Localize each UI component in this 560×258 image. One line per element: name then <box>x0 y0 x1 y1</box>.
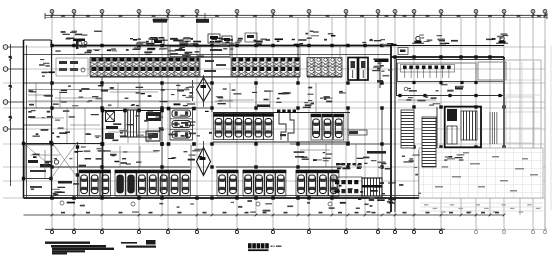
column grid vertical lines <box>52 12 545 228</box>
misc partition lines <box>28 45 436 178</box>
right edge dimension line <box>545 40 551 230</box>
structural column blobs <box>22 44 506 200</box>
bottom dimension line under building <box>24 212 506 217</box>
annotation text clusters (top margin) <box>61 31 509 46</box>
drawing title <box>248 243 282 251</box>
scattered marks lower margin <box>67 200 371 213</box>
light annex structure right <box>419 60 543 198</box>
left dimension chain and bubbles <box>3 44 23 186</box>
lift shaft block <box>348 58 389 89</box>
legend note bars bottom left <box>45 240 156 255</box>
light dimension annotations bottom right <box>420 203 543 213</box>
corridor lines left band <box>28 90 233 102</box>
ramp diamond lower <box>191 141 211 176</box>
annotation clusters (right) <box>303 84 465 194</box>
side parking stalls x170-192 <box>167 107 196 146</box>
top band small rooms <box>170 47 230 57</box>
small roof boxes <box>152 33 257 45</box>
flue symbol top-left <box>73 39 87 50</box>
annotation clusters (top band rooms) <box>55 47 392 77</box>
pump room cluster center bottom <box>333 163 362 197</box>
room between hatch bands <box>200 58 231 77</box>
vent symbol left <box>412 36 424 43</box>
service block upper left (stairs, shafts) <box>101 108 164 146</box>
pipe manifold right of upper stalls <box>277 110 296 142</box>
pump rooms lower-left <box>25 143 77 189</box>
hatched equipment room band <box>90 58 342 77</box>
building outer walls <box>24 40 505 212</box>
storage racks <box>401 110 436 167</box>
stair and lift core <box>445 107 481 148</box>
top grid bubbles <box>50 10 547 18</box>
annotation clusters (center bottom) <box>301 152 396 207</box>
vent symbol right <box>496 36 508 43</box>
dark bar right of stalls <box>294 151 386 158</box>
bottom grid bubble row <box>45 228 547 234</box>
left room fixtures <box>56 58 88 76</box>
stair block lower center <box>362 178 382 196</box>
lower parking stalls <box>79 170 340 196</box>
ramp diamond upper <box>193 75 211 107</box>
small leader circles under building <box>60 201 332 206</box>
right laboratory room <box>397 48 507 150</box>
upper parking stalls <box>213 105 367 141</box>
top dimension line <box>45 13 547 23</box>
row grid horizontal lines <box>3 47 545 198</box>
annotation clusters (mid-left rooms) <box>28 59 212 196</box>
interior walls <box>24 40 437 198</box>
annotation clusters (corridor band) <box>29 85 333 106</box>
duct stripes right of core <box>490 112 497 144</box>
